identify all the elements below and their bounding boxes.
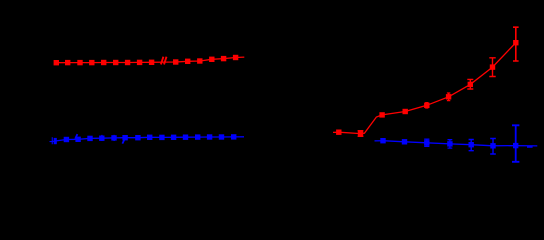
blue error bars (right panel) — [424, 125, 519, 162]
blue square markers (left panel) — [64, 134, 237, 142]
blue hidden error bar tip point 6 (left panel) — [102, 135, 114, 141]
blue thick error bar second point (left panel) — [54, 138, 57, 144]
blue series line (right panel) — [375, 141, 538, 146]
blue series line (left panel) — [52, 137, 244, 142]
red square markers (right panel) — [336, 40, 518, 136]
blue square markers (right panel) — [380, 138, 518, 149]
red double-slash break mark (left panel) — [161, 57, 167, 65]
blue slash mark below point 7 (left panel) — [122, 138, 125, 143]
blue error-bar point (left panel, leftmost) — [50, 137, 53, 144]
blue short dash right of last point (right panel) — [527, 146, 533, 148]
red error bars (right panel) — [358, 27, 519, 136]
red square markers (left panel) — [54, 55, 239, 66]
blue slash mark above point 3 (left panel) — [75, 134, 77, 139]
red series line (right panel) — [333, 43, 516, 134]
red series line (left panel) — [56, 57, 244, 63]
